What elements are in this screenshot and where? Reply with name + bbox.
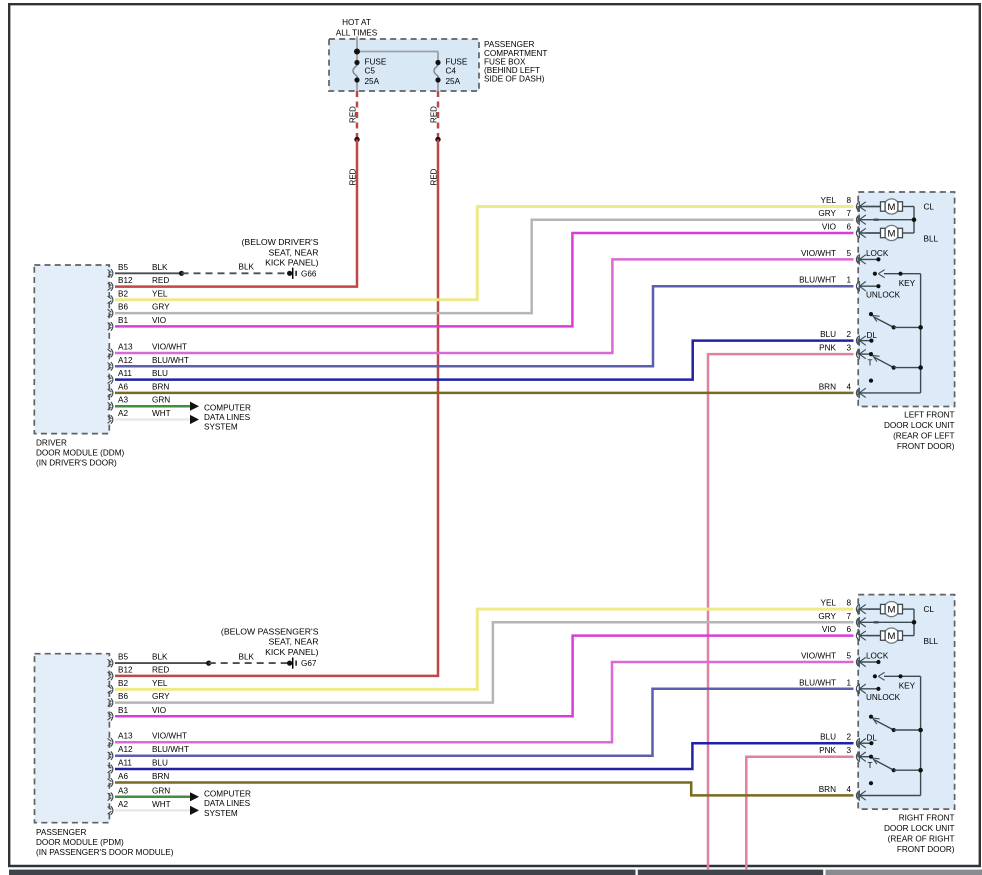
ground location note (G67): [221, 626, 319, 657]
svg-text:BRN: BRN: [819, 382, 836, 391]
svg-text:LOCK: LOCK: [866, 652, 889, 661]
motor BLL (right front door lock unit): [866, 628, 939, 646]
svg-text:DOOR MODULE (PDM): DOOR MODULE (PDM): [36, 838, 124, 847]
wire YEL PDM B2 to RF lock pin 8: [115, 609, 854, 689]
left front door lock unit pin 4 connector: [856, 388, 920, 399]
svg-text:BLK: BLK: [152, 263, 168, 272]
svg-text:VIO: VIO: [152, 316, 166, 325]
svg-text:C4: C4: [446, 66, 457, 75]
wire VIO PDM B1 to RF lock pin 6: [115, 636, 854, 717]
driver door module (DDM) pin B2 connector: [108, 289, 168, 304]
svg-text:BLL: BLL: [924, 234, 939, 243]
svg-text:BLK: BLK: [239, 262, 255, 271]
svg-text:PASSENGER: PASSENGER: [36, 828, 86, 837]
passenger door module (PDM) pin A2 connector: [108, 800, 171, 815]
svg-text:B1: B1: [118, 316, 128, 325]
svg-text:T: T: [868, 761, 873, 770]
svg-text:1: 1: [846, 678, 851, 687]
svg-text:8: 8: [846, 196, 851, 205]
svg-text:YEL: YEL: [821, 196, 837, 205]
svg-text:KICK PANEL): KICK PANEL): [265, 258, 319, 268]
wire BLU/WHT DDM A12 to LF lock pin 1: [115, 286, 854, 366]
svg-text:VIO: VIO: [822, 625, 836, 634]
svg-text:M: M: [888, 228, 896, 239]
bottom bar segment 3: [826, 870, 982, 875]
driver door module (DDM) pin A13 connector: [108, 342, 187, 357]
wire RED fuse C5 to DDM B12: [115, 140, 358, 287]
svg-text:BRN: BRN: [152, 382, 169, 391]
svg-text:FRONT DOOR): FRONT DOOR): [897, 442, 955, 451]
svg-text:UNLOCK: UNLOCK: [866, 291, 901, 300]
motor CL (right front door lock unit): [866, 602, 934, 617]
svg-text:GRY: GRY: [818, 209, 836, 218]
svg-text:A6: A6: [118, 772, 128, 781]
svg-text:B2: B2: [118, 679, 128, 688]
svg-text:M: M: [888, 202, 896, 213]
wire BLK DDM B5 to ground: [115, 272, 182, 274]
svg-text:A3: A3: [118, 396, 128, 405]
svg-text:COMPUTER: COMPUTER: [204, 789, 251, 798]
passenger door module (PDM) pin A13 connector: [108, 732, 187, 747]
motor common wiring (left front door lock unit): [874, 207, 917, 234]
svg-text:ALL TIMES: ALL TIMES: [336, 29, 378, 38]
passenger door module (PDM) pin B1 connector: [108, 706, 167, 721]
bottom bar segment 1: [9, 870, 636, 875]
left front door lock unit pin 3 label: [819, 344, 851, 353]
spare contact (right front door lock unit): [869, 781, 873, 785]
right front door lock unit pin 6 connector: [856, 630, 880, 641]
svg-text:VIO/WHT: VIO/WHT: [801, 249, 836, 258]
fuse C5 25A: [353, 57, 387, 91]
svg-text:5: 5: [846, 249, 851, 258]
svg-text:(REAR OF RIGHT: (REAR OF RIGHT: [888, 835, 955, 844]
left front door lock unit pin 1 connector: [856, 281, 878, 292]
wire BLU PDM A11 to RF lock pin 2: [115, 743, 854, 769]
svg-text:SYSTEM: SYSTEM: [204, 423, 238, 432]
right front door lock unit box: [858, 595, 954, 810]
left front door lock unit pin 6 label: [822, 222, 852, 231]
fuse C4 25A: [434, 57, 468, 91]
driver door module (DDM) pin B1 connector: [108, 316, 167, 331]
node: fuse box bus junction: [354, 49, 360, 55]
svg-text:WHT: WHT: [152, 800, 171, 809]
left front door lock unit pin 7 label: [818, 209, 851, 218]
computer data lines system label (DDM): [204, 403, 251, 431]
svg-text:COMPUTER: COMPUTER: [204, 403, 251, 412]
svg-text:KEY: KEY: [899, 682, 916, 691]
left front door lock unit caption: [884, 411, 955, 452]
T switch (left front door lock unit): [868, 352, 923, 370]
svg-text:VIO: VIO: [822, 222, 836, 231]
passenger door module (PDM) pin B2 connector: [108, 679, 168, 694]
svg-text:3: 3: [846, 344, 851, 353]
svg-text:SYSTEM: SYSTEM: [204, 809, 238, 818]
svg-text:B12: B12: [118, 276, 133, 285]
svg-text:LEFT FRONT: LEFT FRONT: [904, 411, 954, 420]
svg-text:25A: 25A: [446, 77, 461, 86]
wire VIO DDM B1 to LF lock pin 6: [115, 233, 854, 326]
svg-text:FUSE: FUSE: [446, 57, 468, 66]
wire VIO/WHT PDM A13 to RF lock pin 5: [115, 662, 854, 742]
UNLOCK contact (right front door lock unit): [866, 687, 901, 702]
svg-text:B2: B2: [118, 289, 128, 298]
svg-text:DL: DL: [867, 733, 878, 742]
svg-text:A12: A12: [118, 356, 133, 365]
svg-text:2: 2: [846, 733, 851, 742]
passenger door module (PDM) pin B12 connector: [108, 665, 170, 680]
svg-text:A11: A11: [118, 369, 132, 378]
right front door lock unit pin 2 label: [820, 733, 851, 742]
bottom bar segment 2: [638, 870, 823, 875]
svg-text:RED: RED: [349, 168, 358, 185]
svg-text:BLU: BLU: [152, 758, 168, 767]
svg-text:KICK PANEL): KICK PANEL): [265, 647, 319, 657]
left front door lock unit pin 8 label: [821, 196, 852, 205]
svg-text:BLK: BLK: [152, 653, 168, 662]
svg-text:8: 8: [846, 599, 851, 608]
right front door lock unit pin 5 connector: [856, 657, 878, 668]
svg-text:GRY: GRY: [152, 692, 170, 701]
driver door module (DDM) box: [34, 265, 109, 434]
svg-text:RED: RED: [152, 665, 169, 674]
left front door lock unit pin 5 connector: [856, 254, 878, 265]
svg-text:A11: A11: [118, 758, 132, 767]
svg-text:DATA LINES: DATA LINES: [204, 413, 251, 422]
svg-text:2: 2: [846, 330, 851, 339]
left front door lock unit pin 7 connector: [856, 214, 914, 225]
svg-text:A13: A13: [118, 732, 133, 741]
motor BLL (left front door lock unit): [866, 225, 939, 243]
svg-text:VIO: VIO: [152, 706, 166, 715]
wire WHT DDM to data lines: [115, 415, 199, 424]
right front door lock unit pin 7 connector: [856, 617, 914, 628]
svg-text:HOT AT: HOT AT: [342, 18, 371, 27]
svg-text:KEY: KEY: [899, 279, 916, 288]
wire BRN PDM A6 to RF lock pin 4: [115, 783, 854, 796]
wire YEL DDM B2 to LF lock pin 8: [115, 207, 854, 300]
wire WHT PDM to data lines: [115, 806, 199, 815]
driver door module (DDM) pin A12 connector: [108, 356, 189, 371]
wire BRN DDM A6 to LF lock pin 4: [115, 392, 854, 395]
svg-text:GRY: GRY: [818, 612, 836, 621]
right front door lock unit pin 4 connector: [856, 790, 920, 801]
bus wire to fuse C4: [357, 52, 438, 63]
driver door module (DDM) pin B12 connector: [108, 276, 170, 291]
svg-text:DOOR LOCK UNIT: DOOR LOCK UNIT: [884, 824, 955, 833]
svg-text:RED: RED: [152, 276, 169, 285]
svg-text:M: M: [888, 605, 896, 616]
svg-text:G67: G67: [301, 659, 317, 668]
svg-text:(IN DRIVER'S DOOR): (IN DRIVER'S DOOR): [36, 459, 117, 468]
left front door lock unit pin 4 label: [819, 382, 852, 391]
DL switch (right front door lock unit): [867, 715, 923, 746]
svg-text:CL: CL: [924, 605, 935, 614]
svg-text:YEL: YEL: [152, 289, 168, 298]
svg-text:BLU/WHT: BLU/WHT: [799, 276, 836, 285]
svg-text:5: 5: [846, 651, 851, 660]
passenger compartment fuse box: [329, 39, 479, 91]
svg-text:DOOR LOCK UNIT: DOOR LOCK UNIT: [884, 421, 955, 430]
svg-text:VIO/WHT: VIO/WHT: [801, 651, 836, 660]
wire PNK left door lock unit pin 3 drop: [708, 354, 854, 869]
svg-text:C5: C5: [365, 66, 376, 75]
svg-text:YEL: YEL: [152, 679, 168, 688]
wire BLU DDM A11 to LF lock pin 2: [115, 341, 854, 380]
svg-text:GRY: GRY: [152, 303, 170, 312]
svg-text:4: 4: [846, 785, 851, 794]
svg-text:G66: G66: [301, 269, 317, 278]
svg-text:A12: A12: [118, 745, 133, 754]
ground G67: [287, 658, 317, 669]
ground location note (G66): [242, 237, 319, 267]
passenger door module (PDM) box: [35, 654, 110, 823]
left front door lock unit pin 6 connector: [856, 228, 880, 239]
svg-text:B5: B5: [118, 653, 128, 662]
left front door lock unit pin 2 connector: [856, 335, 871, 346]
LOCK contact (right front door lock unit): [866, 652, 889, 665]
right front door lock unit pin 8 connector: [856, 604, 880, 615]
node splice on RED (C4): [435, 137, 440, 142]
svg-text:A3: A3: [118, 786, 128, 795]
right front door lock unit pin 1 connector: [856, 684, 878, 695]
driver door module (DDM) pin A11 connector: [108, 369, 168, 384]
right front door lock unit pin 3 connector: [856, 751, 871, 762]
svg-text:(BELOW PASSENGER'S: (BELOW PASSENGER'S: [221, 626, 319, 636]
svg-text:3: 3: [846, 746, 851, 755]
ground G66: [287, 268, 317, 279]
node splice on BLK (G67): [206, 661, 211, 666]
svg-text:BRN: BRN: [152, 772, 169, 781]
svg-text:BLL: BLL: [924, 637, 939, 646]
svg-text:B6: B6: [118, 692, 128, 701]
right front door lock unit pin 5 label: [801, 651, 851, 660]
driver door module (DDM) pin B5 connector: [108, 263, 168, 278]
driver door module (DDM) pin A6 connector: [108, 382, 170, 397]
svg-text:RIGHT FRONT: RIGHT FRONT: [899, 814, 955, 823]
svg-text:B12: B12: [118, 665, 133, 674]
svg-text:CL: CL: [924, 202, 935, 211]
wire PNK right door lock unit pin 3 drop: [746, 757, 853, 870]
passenger door module (PDM) pin A12 connector: [108, 745, 189, 760]
wire RED fuse C4 to PDM B12: [115, 140, 439, 676]
right front door lock unit pin 3 label: [819, 746, 851, 755]
internal bus wire (left front door lock unit): [920, 274, 922, 393]
svg-text:BLU: BLU: [820, 330, 836, 339]
svg-text:BRN: BRN: [819, 785, 836, 794]
svg-text:A6: A6: [118, 382, 128, 391]
svg-text:SEAT, NEAR: SEAT, NEAR: [268, 247, 318, 257]
wire GRY PDM B6 to RF lock pin 7: [115, 622, 854, 702]
svg-text:LOCK: LOCK: [866, 249, 889, 258]
wire RED dashed from fuse C4: [430, 91, 439, 139]
svg-text:25A: 25A: [365, 77, 380, 86]
svg-text:BLU: BLU: [152, 369, 168, 378]
svg-text:B1: B1: [118, 706, 128, 715]
svg-text:6: 6: [846, 625, 851, 634]
svg-text:BLU/WHT: BLU/WHT: [152, 356, 189, 365]
svg-text:DOOR MODULE (DDM): DOOR MODULE (DDM): [36, 449, 125, 458]
svg-text:SEAT, NEAR: SEAT, NEAR: [268, 637, 318, 647]
svg-text:(BELOW DRIVER'S: (BELOW DRIVER'S: [242, 237, 319, 247]
HOT AT ALL TIMES label: [336, 18, 378, 38]
left front door lock unit pin 3 connector: [856, 349, 871, 360]
svg-text:T: T: [868, 358, 873, 367]
passenger door module (PDM) pin B5 connector: [108, 653, 168, 668]
svg-text:7: 7: [846, 209, 851, 218]
wire BLK dashed to G66: [182, 262, 289, 273]
svg-text:VIO/WHT: VIO/WHT: [152, 342, 187, 351]
svg-text:SIDE OF DASH): SIDE OF DASH): [484, 75, 545, 84]
right front door lock unit pin 2 connector: [856, 738, 871, 749]
svg-text:B5: B5: [118, 263, 128, 272]
passenger door module (PDM) caption: [36, 828, 174, 857]
motor CL (left front door lock unit): [866, 199, 934, 214]
left front door lock unit pin 1 label: [799, 276, 851, 285]
svg-text:BLK: BLK: [239, 652, 255, 661]
UNLOCK contact (left front door lock unit): [866, 284, 901, 299]
svg-text:RED: RED: [430, 106, 439, 123]
svg-text:DL: DL: [867, 331, 878, 340]
left front door lock unit pin 8 connector: [856, 201, 880, 212]
svg-text:RED: RED: [349, 106, 358, 123]
KEY switch (right front door lock unit): [873, 672, 921, 690]
driver door module (DDM) pin A2 connector: [108, 409, 171, 424]
right front door lock unit pin 1 label: [799, 678, 851, 687]
spare contact (left front door lock unit): [869, 379, 873, 383]
driver door module (DDM) pin A3 connector: [108, 396, 171, 411]
svg-text:B6: B6: [118, 303, 128, 312]
feed wire into fuse box: [356, 37, 358, 63]
svg-text:FRONT DOOR): FRONT DOOR): [897, 845, 955, 854]
LOCK contact (left front door lock unit): [866, 249, 889, 262]
wire RED dashed from fuse C5: [349, 91, 358, 139]
wire GRN DDM to data lines: [115, 402, 199, 411]
svg-text:M: M: [888, 631, 896, 642]
passenger door module (PDM) pin A6 connector: [108, 772, 170, 787]
node splice on BLK (G66): [179, 271, 184, 276]
svg-text:BLU/WHT: BLU/WHT: [152, 745, 189, 754]
wire VIO/WHT DDM A13 to LF lock pin 5: [115, 259, 854, 353]
svg-text:A2: A2: [118, 800, 128, 809]
wire GRN PDM to data lines: [115, 792, 199, 801]
node splice on RED (C5): [354, 137, 359, 142]
right front door lock unit pin 6 label: [822, 625, 852, 634]
svg-text:VIO/WHT: VIO/WHT: [152, 732, 187, 741]
svg-text:DATA LINES: DATA LINES: [204, 799, 251, 808]
passenger door module (PDM) pin B6 connector: [108, 692, 171, 707]
fuse box location label: [484, 40, 547, 83]
svg-text:7: 7: [846, 612, 851, 621]
svg-text:RED: RED: [430, 168, 439, 185]
motor common wiring (right front door lock unit): [874, 609, 917, 636]
svg-text:6: 6: [846, 222, 851, 231]
svg-text:PNK: PNK: [819, 746, 836, 755]
svg-text:4: 4: [846, 382, 851, 391]
DL switch (left front door lock unit): [867, 312, 923, 343]
svg-text:YEL: YEL: [821, 599, 837, 608]
right front door lock unit pin 8 label: [821, 599, 852, 608]
svg-text:DRIVER: DRIVER: [36, 438, 67, 447]
svg-text:(IN PASSENGER'S DOOR MODULE): (IN PASSENGER'S DOOR MODULE): [36, 848, 174, 857]
KEY switch (left front door lock unit): [873, 270, 921, 288]
passenger door module (PDM) pin A11 connector: [108, 758, 168, 773]
svg-text:A13: A13: [118, 342, 133, 351]
right front door lock unit caption: [884, 814, 955, 855]
computer data lines system label (PDM): [204, 789, 251, 818]
wire GRY DDM B6 to LF lock pin 7: [115, 220, 854, 313]
svg-text:FUSE: FUSE: [365, 57, 387, 66]
left front door lock unit pin 2 label: [820, 330, 851, 339]
wire BLK dashed to G67: [209, 652, 288, 663]
passenger door module (PDM) pin A3 connector: [108, 786, 171, 801]
internal bus wire (right front door lock unit): [920, 676, 922, 795]
svg-text:GRN: GRN: [152, 786, 170, 795]
svg-text:A2: A2: [118, 409, 128, 418]
svg-text:BLU: BLU: [820, 733, 836, 742]
svg-text:(REAR OF LEFT: (REAR OF LEFT: [893, 432, 954, 441]
T switch (right front door lock unit): [868, 755, 923, 773]
right front door lock unit pin 4 label: [819, 785, 852, 794]
left front door lock unit box: [858, 192, 954, 407]
svg-text:BLU/WHT: BLU/WHT: [799, 678, 836, 687]
left front door lock unit pin 5 label: [801, 249, 851, 258]
svg-text:1: 1: [846, 276, 851, 285]
svg-text:WHT: WHT: [152, 409, 171, 418]
svg-text:GRN: GRN: [152, 396, 170, 405]
driver door module (DDM) caption: [36, 438, 125, 467]
wire BLU/WHT PDM A12 to RF lock pin 1: [115, 689, 854, 756]
wire BLK PDM B5 to ground: [115, 662, 209, 664]
right front door lock unit pin 7 label: [818, 612, 851, 621]
svg-text:PNK: PNK: [819, 344, 836, 353]
driver door module (DDM) pin B6 connector: [108, 303, 171, 318]
svg-text:UNLOCK: UNLOCK: [866, 693, 901, 702]
